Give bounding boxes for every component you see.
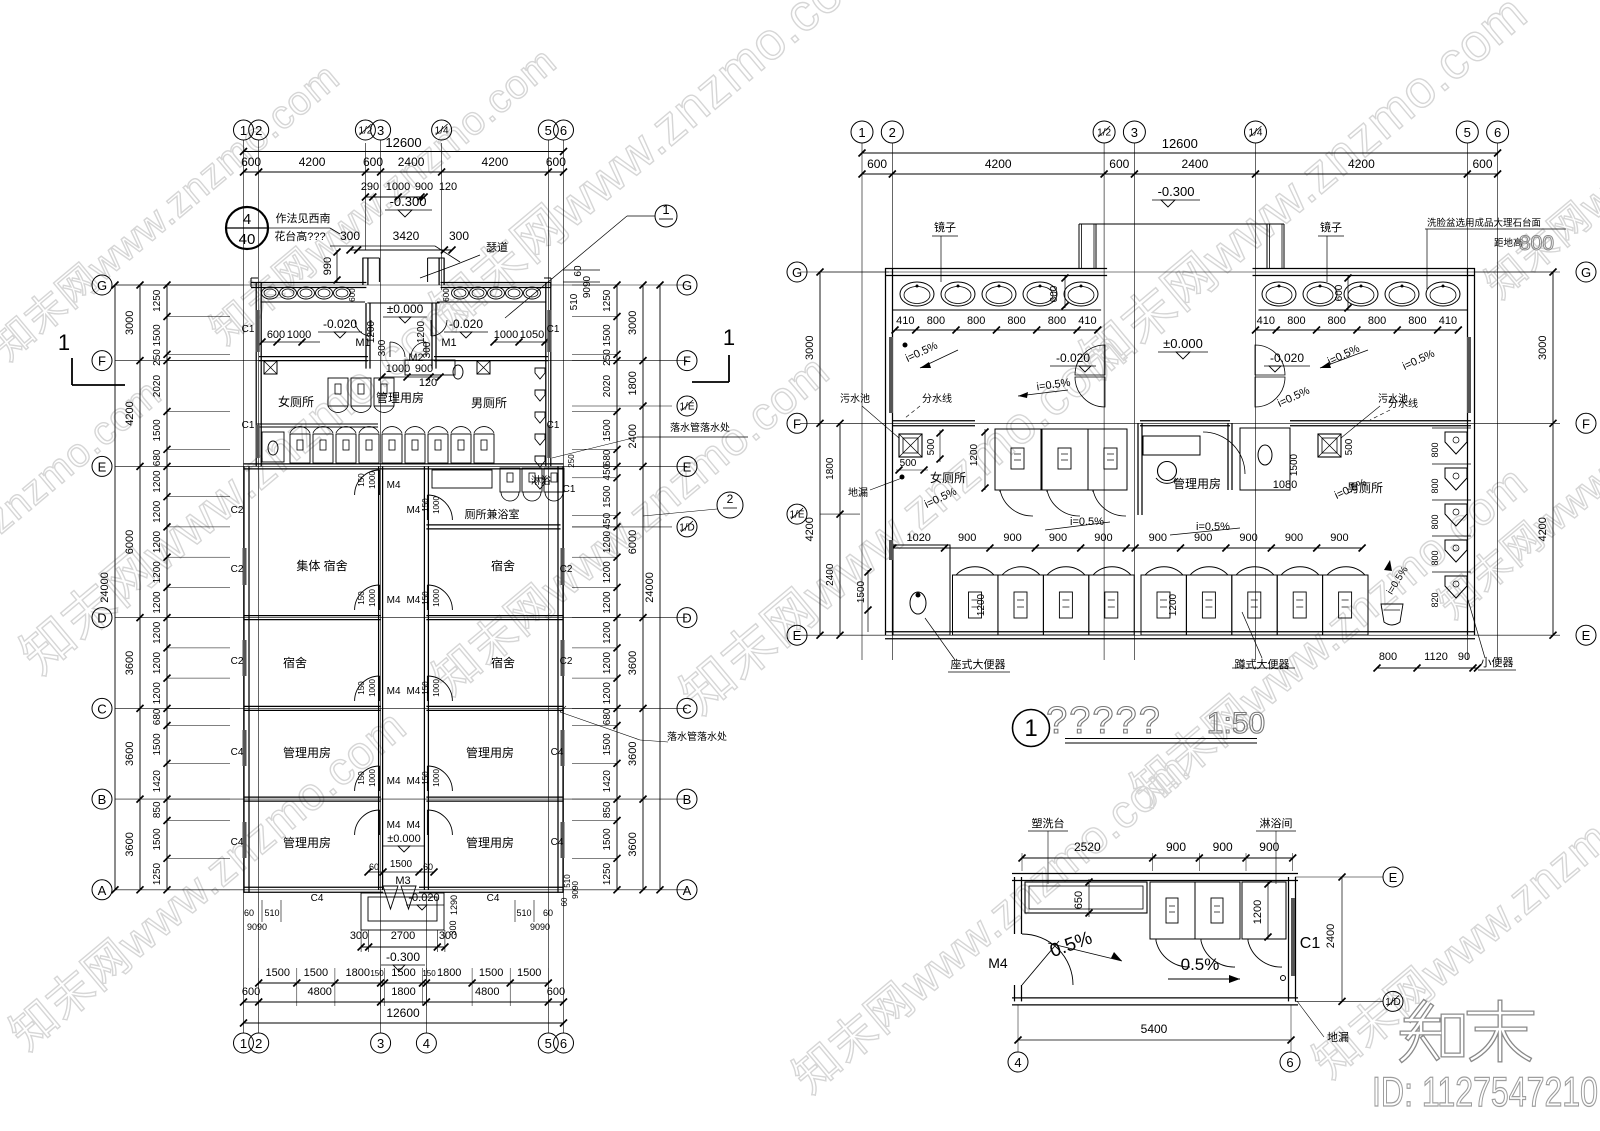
axis bubble D left (92, 608, 112, 628)
svg-text:E: E (793, 628, 802, 643)
svg-text:1800: 1800 (391, 986, 415, 998)
svg-text:-0.020: -0.020 (1056, 351, 1090, 365)
svg-text:1200: 1200 (152, 530, 163, 553)
axis bubble 1/E left (820, 513, 860, 515)
svg-text:5400: 5400 (1141, 1022, 1168, 1036)
svg-text:1200: 1200 (602, 651, 613, 674)
dim chain 300/3420/300 (350, 249, 452, 251)
office walls (1137, 423, 1139, 515)
svg-text:1: 1 (1024, 715, 1037, 742)
svg-text:24000: 24000 (644, 572, 656, 603)
axis bubble E right (677, 456, 697, 476)
axis bubble 1 top (234, 120, 254, 140)
svg-text:680: 680 (152, 449, 163, 466)
svg-text:镜子: 镜子 (1320, 220, 1342, 234)
svg-text:9090: 9090 (530, 922, 550, 932)
svg-text:12600: 12600 (385, 135, 421, 150)
detail circle 4/40 (226, 207, 268, 249)
svg-text:M4: M4 (387, 820, 401, 831)
2400 dim right (1341, 877, 1343, 1001)
svg-text:600: 600 (1049, 285, 1060, 302)
svg-text:900: 900 (1166, 840, 1186, 854)
svg-text:4200: 4200 (124, 401, 136, 425)
svg-text:C4: C4 (551, 837, 564, 848)
svg-text:M4: M4 (406, 686, 420, 697)
svg-text:1800: 1800 (437, 967, 461, 979)
door M4 at 380,470 (355, 470, 380, 495)
svg-text:2400: 2400 (825, 563, 836, 586)
svg-text:1000: 1000 (368, 589, 377, 607)
svg-text:990: 990 (322, 257, 334, 275)
right dim chain mid (642, 285, 644, 890)
svg-text:C1: C1 (563, 484, 576, 495)
svg-text:1050: 1050 (520, 329, 544, 341)
left dim overall 24000 (114, 285, 116, 890)
door M4 at 427,766 (427, 766, 452, 791)
upper stalls left wing (3) (995, 429, 1041, 490)
svg-text:M4: M4 (387, 480, 401, 491)
axis bubble A left (92, 880, 112, 900)
svg-text:1500: 1500 (517, 967, 541, 979)
svg-text:300: 300 (422, 341, 433, 358)
svg-text:1200: 1200 (602, 530, 613, 553)
counter 塑洗台 (1025, 882, 1147, 913)
svg-text:4800: 4800 (475, 986, 499, 998)
svg-text:800: 800 (927, 315, 945, 327)
svg-text:150: 150 (357, 591, 366, 605)
svg-text:2400: 2400 (627, 424, 639, 448)
svg-text:600: 600 (1109, 157, 1129, 171)
svg-text:3600: 3600 (124, 651, 136, 675)
svg-text:300: 300 (439, 930, 457, 942)
svg-text:1500: 1500 (304, 967, 328, 979)
svg-text:小便器: 小便器 (1481, 656, 1514, 669)
axis bubble B left (92, 789, 112, 809)
title underline (1065, 738, 1257, 740)
svg-text:管理用房: 管理用房 (283, 835, 331, 850)
interior wall D (244, 615, 381, 617)
svg-text:地漏: 地漏 (848, 486, 868, 499)
desk counter in center room (405, 360, 455, 375)
svg-text:150: 150 (422, 969, 436, 978)
svg-text:800: 800 (967, 315, 985, 327)
svg-text:150: 150 (421, 681, 430, 695)
svg-text:C1: C1 (1300, 935, 1321, 952)
svg-text:F: F (98, 354, 106, 369)
svg-text:3600: 3600 (627, 741, 639, 765)
axis bubble 3 (1123, 121, 1145, 143)
svg-text:1: 1 (240, 1036, 247, 1051)
urinal column right wall (1445, 432, 1467, 454)
svg-text:1: 1 (662, 202, 669, 217)
washroom square right (477, 361, 490, 374)
svg-text:850: 850 (602, 801, 613, 818)
axis bubble F right (677, 351, 697, 371)
svg-text:1200: 1200 (976, 593, 987, 616)
svg-text:600: 600 (867, 157, 887, 171)
axis line 1 (243, 140, 245, 1033)
svg-text:F: F (793, 416, 801, 431)
svg-text:1000: 1000 (432, 496, 441, 514)
svg-text:1000: 1000 (368, 769, 377, 787)
svg-text:M4: M4 (406, 776, 420, 787)
svg-text:150: 150 (357, 771, 366, 785)
svg-text:9090: 9090 (571, 881, 580, 899)
svg-text:1000: 1000 (386, 363, 410, 375)
svg-text:900: 900 (958, 532, 976, 544)
dim 300 2700 300 (361, 946, 445, 948)
svg-text:850: 850 (152, 801, 163, 818)
axis bubble 4 bottom (416, 1033, 436, 1053)
door M4 at 380,676 (355, 676, 380, 701)
svg-text:1500: 1500 (856, 580, 867, 603)
top dim chain 600/4200/600/2400/4200/600 (244, 171, 564, 173)
axis bubble F right (1576, 413, 1596, 433)
svg-text:1250: 1250 (602, 862, 613, 885)
svg-text:150: 150 (421, 498, 430, 512)
svg-text:290: 290 (361, 181, 379, 193)
svg-text:M3: M3 (395, 875, 410, 887)
svg-text:4200: 4200 (482, 155, 509, 169)
interior wall C (244, 705, 381, 707)
svg-text:污水池: 污水池 (840, 392, 870, 405)
shower stalls (1150, 882, 1195, 939)
svg-text:800: 800 (1430, 550, 1440, 565)
svg-text:1500: 1500 (602, 419, 613, 442)
svg-text:600: 600 (267, 329, 285, 341)
svg-text:1200: 1200 (602, 561, 613, 584)
svg-text:4200: 4200 (299, 155, 326, 169)
small plan outer walls (1012, 873, 1298, 875)
sink counters with basins (left wing) (261, 301, 365, 303)
svg-text:1500: 1500 (602, 324, 613, 347)
axis 1/D right (1295, 1000, 1383, 1002)
svg-text:1200: 1200 (416, 320, 427, 343)
svg-text:600: 600 (241, 155, 261, 169)
svg-text:2: 2 (255, 1036, 262, 1051)
grid line C (115, 707, 687, 709)
door M4 at 427,495 (427, 495, 452, 520)
svg-text:F: F (683, 354, 691, 369)
right dim overall 24000 (659, 285, 661, 890)
axis bubble 2 top (249, 120, 269, 140)
svg-text:900: 900 (1239, 532, 1257, 544)
svg-text:1500: 1500 (602, 828, 613, 851)
svg-text:1000: 1000 (432, 679, 441, 697)
svg-text:1000: 1000 (432, 769, 441, 787)
svg-text:C2: C2 (231, 656, 244, 667)
bottom stall dim chain (893, 547, 1362, 549)
door M4 at 380,585 (355, 585, 380, 610)
svg-text:900: 900 (1285, 532, 1303, 544)
svg-text:410: 410 (1439, 315, 1457, 327)
axis bubble 1/D right (572, 526, 672, 528)
svg-text:座式大便器: 座式大便器 (951, 657, 1006, 671)
axis bubble 1/2 (1093, 121, 1115, 143)
svg-text:厕所兼浴室: 厕所兼浴室 (465, 507, 520, 521)
dim chain (862, 173, 1498, 175)
svg-text:G: G (792, 265, 802, 280)
svg-text:6: 6 (1494, 125, 1501, 140)
svg-text:ID: 1127547210: ID: 1127547210 (1372, 1068, 1598, 1115)
svg-text:E: E (98, 459, 107, 474)
svg-text:M4: M4 (387, 595, 401, 606)
svg-text:1020: 1020 (906, 532, 930, 544)
sub dim chain 290/1000/900/120 (365, 196, 424, 198)
svg-text:40: 40 (239, 231, 256, 248)
svg-text:12600: 12600 (386, 1006, 420, 1020)
svg-text:1500: 1500 (602, 485, 613, 508)
svg-text:1500: 1500 (390, 859, 413, 870)
axis bubble 3 top (371, 120, 391, 140)
svg-text:宿舍: 宿舍 (491, 558, 515, 573)
svg-text:1200: 1200 (152, 500, 163, 523)
grid line B (115, 798, 687, 800)
grid line E (115, 465, 687, 467)
svg-text:M1: M1 (441, 337, 456, 349)
svg-text:4: 4 (1014, 1055, 1021, 1070)
svg-text:2: 2 (255, 123, 262, 138)
axis bubble E left (787, 625, 807, 645)
door M4 at 427,810 (427, 810, 452, 835)
svg-text:1800: 1800 (627, 371, 639, 395)
svg-text:3: 3 (377, 1036, 384, 1051)
axis bubble C right (677, 698, 697, 718)
slope arrows (1018, 390, 1068, 396)
svg-text:M4: M4 (406, 505, 420, 516)
svg-text:800: 800 (1430, 478, 1440, 493)
svg-text:镜子: 镜子 (934, 220, 956, 234)
toilet center right wing (453, 365, 463, 379)
svg-text:1250: 1250 (602, 289, 613, 312)
svg-text:150: 150 (370, 969, 384, 978)
svg-text:1200: 1200 (602, 621, 613, 644)
svg-text:900: 900 (1330, 532, 1348, 544)
svg-text:250: 250 (602, 349, 613, 366)
svg-text:男厕所: 男厕所 (1347, 481, 1383, 495)
svg-text:1200: 1200 (969, 443, 980, 466)
svg-text:4: 4 (243, 211, 251, 228)
svg-text:1080: 1080 (1273, 479, 1297, 491)
svg-text:1/4: 1/4 (435, 126, 449, 137)
interior wall B (244, 796, 381, 798)
svg-text:4200: 4200 (985, 157, 1012, 171)
svg-text:500: 500 (926, 438, 937, 455)
bottom entrance steps (361, 893, 444, 930)
axis bubble B right (677, 789, 697, 809)
sink dim chain left 410/800x4/410 (895, 329, 1098, 331)
svg-text:管理用房: 管理用房 (466, 745, 514, 760)
svg-text:D: D (682, 611, 691, 626)
svg-text:900: 900 (1003, 532, 1021, 544)
urinal column right wing (535, 368, 545, 379)
svg-text:A: A (683, 883, 692, 898)
door M2 double arcs (390, 342, 405, 357)
svg-text:4200: 4200 (1537, 517, 1549, 541)
drain dots (900, 475, 905, 480)
svg-text:250: 250 (567, 454, 576, 468)
left dim chain mid (139, 285, 141, 890)
F axis interior walls (893, 420, 975, 422)
svg-text:5: 5 (1464, 125, 1471, 140)
svg-text:3000: 3000 (804, 335, 816, 359)
svg-text:地漏: 地漏 (1327, 1031, 1349, 1044)
bottom stalls row (953, 575, 998, 635)
svg-text:800: 800 (1328, 315, 1346, 327)
svg-text:G: G (97, 278, 107, 293)
windows C2/C4 on outer walls (243, 548, 247, 585)
grid line D (115, 617, 687, 619)
svg-text:C1: C1 (547, 324, 560, 335)
svg-text:250: 250 (152, 349, 163, 366)
desk + person in office (1143, 436, 1200, 455)
svg-text:M4: M4 (988, 955, 1008, 971)
svg-text:1:50: 1:50 (1207, 707, 1265, 740)
svg-text:花台高???: 花台高??? (274, 229, 325, 243)
svg-text:1250: 1250 (152, 862, 163, 885)
porch walls top center (362, 258, 364, 285)
svg-text:800: 800 (1430, 442, 1440, 457)
svg-text:600: 600 (1334, 284, 1345, 301)
svg-text:瑟道: 瑟道 (486, 240, 508, 254)
svg-text:1: 1 (858, 125, 865, 140)
svg-text:女厕所: 女厕所 (930, 470, 966, 485)
svg-text:C1: C1 (242, 324, 255, 335)
axis bubble 3 bottom (371, 1033, 391, 1053)
svg-text:落水管落水处: 落水管落水处 (667, 730, 727, 743)
corner seat toilet room bottom left (893, 545, 950, 635)
interior wall 1/D right side (426, 524, 560, 526)
svg-text:1200: 1200 (602, 682, 613, 705)
wall under sinks F axis area (259, 356, 368, 358)
svg-text:管理用房: 管理用房 (283, 745, 331, 760)
svg-text:90: 90 (1458, 651, 1470, 663)
svg-text:900: 900 (1194, 532, 1212, 544)
porch top center (1078, 224, 1080, 268)
axis bubble 2 bottom (249, 1033, 269, 1053)
svg-text:1800: 1800 (346, 967, 370, 979)
axis bubble 1/2 top (355, 120, 375, 140)
svg-text:410: 410 (1078, 315, 1096, 327)
axis line 6 (563, 140, 565, 1033)
svg-text:600: 600 (1472, 157, 1492, 171)
svg-text:600: 600 (442, 288, 451, 302)
corridor walls (378, 466, 380, 889)
svg-text:1000: 1000 (368, 679, 377, 697)
svg-text:1290: 1290 (449, 895, 459, 915)
axis bubble 2 (881, 121, 903, 143)
axis bubble 5 (1456, 121, 1478, 143)
axis bubble 5 bottom (538, 1033, 558, 1053)
svg-text:-0.300: -0.300 (390, 194, 427, 209)
left dim chain inner (166, 285, 168, 890)
wash basin on E wall right (1381, 604, 1403, 625)
svg-text:集体 宿舍: 集体 宿舍 (296, 558, 347, 573)
svg-text:B: B (98, 792, 107, 807)
svg-text:3600: 3600 (627, 832, 639, 856)
svg-text:800: 800 (1519, 232, 1554, 255)
svg-text:3000: 3000 (627, 311, 639, 335)
svg-text:510: 510 (569, 293, 580, 310)
svg-text:C2: C2 (231, 505, 244, 516)
axis bubble C left (92, 698, 112, 718)
lower stall row (squat) left wing (290, 434, 310, 463)
svg-text:150: 150 (421, 771, 430, 785)
corner toilet left (262, 432, 284, 462)
svg-text:2: 2 (727, 492, 734, 506)
toilet block outer walls (251, 282, 366, 284)
svg-text:1000: 1000 (432, 589, 441, 607)
top dim chain small plan (1022, 857, 1293, 859)
svg-text:800: 800 (1368, 315, 1386, 327)
svg-text:1: 1 (58, 330, 70, 355)
axis bubble 6 bottom (554, 1033, 574, 1053)
shower stalls top right room (432, 470, 492, 488)
detail marker 2 right (717, 492, 743, 518)
svg-text:E: E (1389, 870, 1398, 885)
svg-text:G: G (682, 278, 692, 293)
svg-text:2700: 2700 (391, 930, 415, 942)
svg-text:管理用房: 管理用房 (1173, 476, 1221, 491)
axis bubble D right (677, 608, 697, 628)
svg-text:410: 410 (896, 315, 914, 327)
svg-text:820: 820 (1430, 592, 1440, 607)
svg-text:分水线: 分水线 (1388, 397, 1418, 410)
svg-text:M4: M4 (387, 686, 401, 697)
svg-text:800: 800 (1408, 315, 1426, 327)
svg-text:1500: 1500 (479, 967, 503, 979)
axis line 1/4 (441, 143, 443, 290)
svg-text:800: 800 (1007, 315, 1025, 327)
svg-text:女厕所: 女厕所 (278, 394, 314, 409)
svg-text:300: 300 (449, 229, 469, 243)
svg-text:1500: 1500 (602, 733, 613, 756)
svg-text:6: 6 (560, 123, 567, 138)
svg-text:1000: 1000 (368, 471, 377, 489)
svg-text:1200: 1200 (1252, 900, 1264, 924)
door M4 small plan (1022, 934, 1073, 985)
svg-text:1: 1 (240, 123, 247, 138)
entrance threshold line (367, 302, 439, 304)
svg-text:150: 150 (357, 473, 366, 487)
svg-text:1250: 1250 (152, 289, 163, 312)
axis line 1/2 (364, 143, 366, 250)
svg-text:3600: 3600 (627, 651, 639, 675)
axis bubble F left (92, 351, 112, 371)
office door arc (1203, 432, 1245, 474)
axis bubble 4 (1008, 1052, 1028, 1072)
svg-text:6: 6 (1286, 1055, 1293, 1070)
svg-text:1500: 1500 (152, 733, 163, 756)
svg-text:1420: 1420 (602, 770, 613, 793)
svg-text:D: D (97, 611, 106, 626)
svg-text:150: 150 (357, 681, 366, 695)
svg-text:-0.020: -0.020 (323, 317, 357, 331)
svg-text:E: E (683, 459, 692, 474)
svg-text:±0.000: ±0.000 (387, 833, 421, 845)
svg-text:600: 600 (348, 288, 357, 302)
axis line 3 (380, 140, 382, 1033)
svg-text:500: 500 (1344, 438, 1355, 455)
svg-text:1200: 1200 (152, 651, 163, 674)
sink dim chain right (1256, 329, 1459, 331)
svg-text:2400: 2400 (1182, 157, 1209, 171)
grid letters right plan (800, 271, 1560, 273)
svg-text:1/2: 1/2 (1097, 128, 1111, 139)
svg-text:800: 800 (1430, 514, 1440, 529)
svg-text:3: 3 (377, 123, 384, 138)
svg-text:C1: C1 (242, 420, 255, 431)
